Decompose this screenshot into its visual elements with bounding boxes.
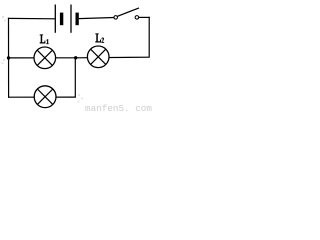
svg-text:manfen5. com: manfen5. com (85, 103, 152, 114)
lamp L3 (34, 86, 56, 108)
wire top-left horizontal (8, 17, 55, 19)
watermark speckles (2, 16, 84, 103)
wire right vertical (148, 17, 150, 58)
switch S1 terminal right (135, 16, 139, 20)
wire switch to top-right corner (138, 16, 149, 18)
wire middle rail (8, 56, 149, 59)
battery B1 plate long left (54, 5, 56, 33)
label L1 (40, 34, 49, 44)
wire battery to switch (79, 18, 114, 19)
battery B1 plate thick left (60, 13, 63, 26)
switch S1 terminal left (114, 16, 118, 20)
wire left vertical (8, 18, 10, 98)
battery B1 plate thick right (76, 13, 79, 26)
lamp L2 (87, 46, 109, 68)
switch S1 lever (117, 8, 139, 16)
node junction middle (74, 56, 77, 59)
lamp L1 (34, 47, 56, 69)
wire bottom rail (8, 96, 76, 98)
wire bottom loop vertical (74, 58, 76, 98)
battery B1 plate long right (70, 5, 72, 33)
node junction left (7, 56, 10, 59)
label L2 (95, 33, 104, 43)
